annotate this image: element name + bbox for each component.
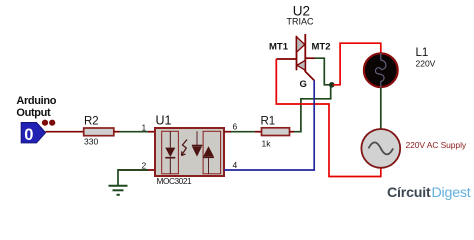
AC source (361, 129, 466, 168)
U1 internal LED (165, 131, 175, 174)
wire pin0 to R2 (46, 131, 84, 133)
logo CircuitDigest (387, 185, 471, 201)
svg-text:Output: Output (16, 107, 51, 119)
resistor R2 (84, 116, 114, 147)
svg-text:TRIAC: TRIAC (287, 17, 315, 27)
left bar (296, 36, 298, 70)
svg-text:Digest: Digest (432, 185, 471, 201)
wire MT1 to AC supply (276, 59, 381, 177)
svg-text:4: 4 (233, 160, 238, 170)
wire U1 pin6 to R1 (224, 131, 231, 133)
svg-text:330: 330 (84, 137, 98, 147)
lamp L1 (364, 47, 436, 88)
bottom triangle (297, 60, 305, 70)
U1 internal triac box (203, 131, 221, 174)
wire U1 pin2 to ground (118, 169, 155, 171)
connector pin 0 (Arduino output terminal) (21, 123, 45, 144)
svg-text:Arduino: Arduino (16, 95, 56, 107)
wire node to lamp (333, 43, 381, 85)
MT2 pin (305, 57, 314, 59)
MT1 pin (276, 58, 296, 60)
junction node (329, 82, 335, 88)
triac U2 (269, 3, 331, 90)
wire R1 to MT2 node (290, 131, 295, 133)
svg-text:220V: 220V (416, 59, 436, 69)
U1 internal LED box (162, 131, 179, 174)
breakpoint dots (42, 120, 48, 126)
wire R2 to U1 pin1 (114, 131, 120, 133)
svg-text:U1: U1 (156, 114, 172, 128)
svg-text:1k: 1k (262, 139, 272, 149)
svg-text:R2: R2 (84, 116, 99, 128)
svg-text:R1: R1 (261, 116, 276, 128)
svg-text:2: 2 (142, 161, 147, 171)
svg-text:6: 6 (233, 122, 238, 132)
resistor R1 (261, 116, 290, 149)
ground (109, 186, 128, 195)
svg-text:MOC3021: MOC3021 (157, 176, 192, 186)
wire gate to U1 pin4 (224, 80, 314, 170)
svg-text:1: 1 (142, 123, 147, 133)
wire lamp to AC supply (380, 88, 382, 129)
svg-text:MT1: MT1 (269, 42, 289, 53)
svg-text:L1: L1 (416, 47, 429, 59)
svg-text:220V AC Supply: 220V AC Supply (406, 140, 467, 150)
top triangle (297, 37, 305, 53)
svg-text:0: 0 (24, 126, 33, 144)
svg-text:G: G (300, 79, 307, 90)
svg-text:Círcuit: Círcuit (387, 185, 431, 201)
optocoupler U1 MOC3021 (155, 114, 224, 186)
gate pin (305, 72, 314, 81)
U1 light arrows (182, 140, 188, 156)
U1 internal triac (192, 131, 214, 174)
svg-text:MT2: MT2 (312, 42, 331, 53)
right bar (304, 34, 306, 72)
